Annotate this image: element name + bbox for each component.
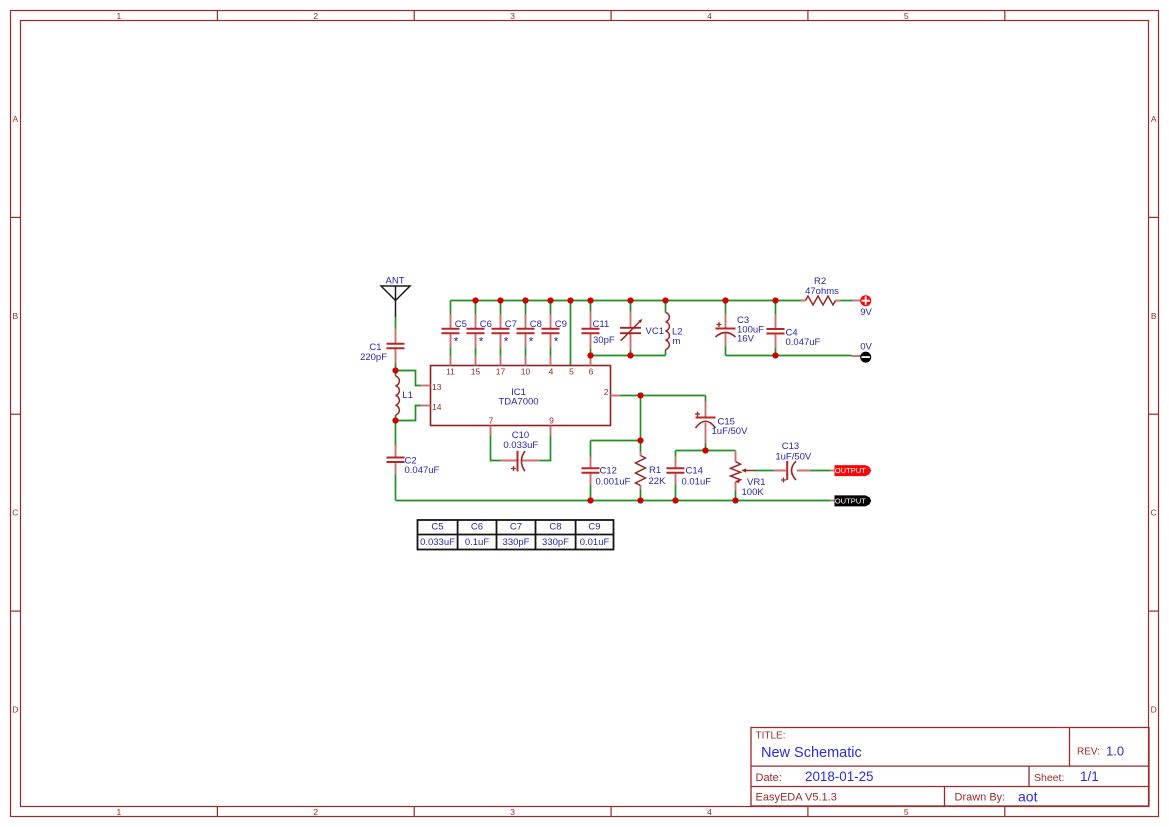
wire wiper to C13 — [755, 470, 775, 472]
svg-text:9V: 9V — [860, 307, 872, 318]
title block row line 1 — [751, 765, 1149, 767]
svg-text:11: 11 — [446, 366, 455, 376]
net flag OUTPUT red — [830, 465, 871, 476]
capacitor C8 — [517, 314, 535, 348]
wire C6 branch to pin 15 — [475, 301, 477, 357]
frame tick bottom 4 — [807, 807, 809, 817]
svg-text:9: 9 — [549, 415, 554, 425]
variable capacitor VC1 — [620, 312, 643, 351]
capacitor C12 — [582, 457, 600, 485]
wire C10 to pin 9 — [540, 436, 551, 461]
junction bus C8 — [522, 297, 528, 303]
power flag 9V — [853, 295, 872, 306]
wire C3 branch — [725, 301, 727, 356]
junction bus C9 — [547, 297, 553, 303]
junction 0V C4 — [772, 352, 778, 358]
svg-text:330pF: 330pF — [503, 537, 530, 548]
polarized capacitor C13 — [774, 461, 811, 483]
svg-text:A: A — [1151, 114, 1157, 124]
wire C14 vertical — [675, 451, 677, 501]
svg-text:4: 4 — [707, 807, 712, 817]
resistor R1 — [636, 452, 646, 490]
svg-text:C14: C14 — [686, 466, 703, 477]
polarized capacitor C15 — [695, 402, 716, 444]
svg-text:OUTPUT: OUTPUT — [835, 466, 867, 475]
svg-text:*: * — [479, 335, 484, 349]
svg-text:2: 2 — [604, 387, 609, 397]
wire C5 branch to pin 11 — [450, 301, 452, 357]
svg-text:C13: C13 — [782, 441, 799, 452]
svg-text:4: 4 — [707, 11, 712, 21]
svg-text:2018-01-25: 2018-01-25 — [805, 769, 874, 784]
svg-text:TITLE:: TITLE: — [756, 730, 786, 741]
svg-text:1: 1 — [117, 11, 122, 21]
capacitor C7 — [492, 314, 510, 348]
value table col line 3 — [535, 520, 537, 550]
svg-text:R1: R1 — [649, 465, 661, 476]
svg-text:0.047uF: 0.047uF — [405, 465, 440, 476]
wire node B to pin 14 — [396, 406, 422, 421]
capacitor C11 — [582, 311, 600, 349]
frame tick top 1 — [216, 11, 218, 21]
title block row line 2 — [751, 786, 1149, 788]
svg-text:*: * — [554, 335, 559, 349]
title block divider DrawnBy — [944, 787, 946, 807]
antenna ANT — [381, 286, 410, 317]
svg-text:C7: C7 — [510, 521, 522, 532]
svg-text:C6: C6 — [471, 521, 483, 532]
svg-text:5: 5 — [569, 366, 574, 376]
wire top supply bus left part — [451, 300, 801, 302]
junction ground R1 — [637, 497, 643, 503]
wire pin 5 branch — [570, 301, 572, 366]
svg-text:aot: aot — [1018, 788, 1038, 804]
junction bus VC1 — [627, 297, 633, 303]
capacitor C5 — [442, 314, 460, 348]
svg-text:D: D — [12, 705, 18, 715]
svg-text:5: 5 — [904, 11, 909, 21]
svg-text:L1: L1 — [402, 390, 413, 401]
wire VC1 branch — [630, 301, 632, 356]
frame tick top 3 — [610, 11, 612, 21]
frame tick left 3 — [11, 610, 21, 612]
svg-text:1uF/50V: 1uF/50V — [712, 426, 749, 437]
junction C15 bottom — [702, 447, 708, 453]
junction bus pin5 — [567, 297, 573, 303]
svg-text:A: A — [12, 114, 18, 124]
svg-text:6: 6 — [589, 366, 594, 376]
junction node B L1 C2 — [392, 417, 398, 423]
frame tick top 5 — [1004, 11, 1006, 21]
svg-text:C: C — [1151, 508, 1157, 518]
wire R1 top stub — [640, 441, 642, 452]
svg-text:C9: C9 — [555, 319, 567, 330]
junction tuning net pin6 — [587, 352, 593, 358]
wire C9 branch to pin 4 — [550, 301, 552, 357]
junction bus C7 — [497, 297, 503, 303]
svg-text:16V: 16V — [737, 334, 755, 345]
junction bus L2 — [662, 297, 668, 303]
IC pin numbers — [432, 366, 609, 425]
wire tuning net to pin 6 — [591, 355, 666, 357]
svg-text:2: 2 — [313, 11, 318, 21]
capacitor C4 — [767, 314, 785, 348]
frame tick bottom 2 — [413, 807, 415, 817]
wire node A to pin 13 — [396, 371, 422, 386]
resistor R2 — [801, 296, 841, 305]
wire L1 bottom lead — [395, 415, 397, 421]
wire L2 branch top — [665, 301, 667, 313]
svg-text:B: B — [1151, 311, 1157, 321]
wire C12 link — [591, 440, 641, 442]
svg-text:*: * — [454, 335, 459, 349]
wire R1 bottom stub — [640, 490, 642, 501]
svg-text:0.1uF: 0.1uF — [465, 537, 489, 548]
IC pin stubs — [421, 356, 621, 436]
svg-text:15: 15 — [471, 366, 481, 376]
svg-text:1: 1 — [117, 807, 122, 817]
svg-text:VC1: VC1 — [646, 326, 664, 337]
wire top supply bus right part — [841, 300, 853, 302]
svg-text:TDA7000: TDA7000 — [498, 397, 538, 408]
wire L1 top lead — [395, 371, 397, 377]
svg-text:C7: C7 — [505, 319, 517, 330]
svg-text:0.01uF: 0.01uF — [682, 477, 712, 488]
frame tick right 1 — [1149, 216, 1159, 218]
svg-text:C9: C9 — [588, 521, 600, 532]
svg-text:*: * — [529, 335, 534, 349]
wire L2 branch bottom — [665, 350, 667, 356]
svg-text:C12: C12 — [600, 466, 617, 477]
junction bus C6 — [472, 297, 478, 303]
svg-text:OUTPUT: OUTPUT — [835, 497, 867, 506]
svg-text:B: B — [12, 311, 18, 321]
wire C4 branch — [775, 301, 777, 356]
svg-text:14: 14 — [432, 402, 442, 412]
svg-text:C8: C8 — [530, 319, 542, 330]
frame tick top 2 — [413, 11, 415, 21]
svg-text:2: 2 — [313, 807, 318, 817]
inductor L2 — [666, 313, 670, 350]
polarized capacitor C10 — [501, 451, 541, 472]
wire C2 branch — [395, 421, 397, 501]
inductor L1 — [396, 376, 400, 415]
frame tick right 3 — [1149, 610, 1159, 612]
svg-text:0.01uF: 0.01uF — [580, 537, 610, 548]
wire C12 vertical — [590, 441, 592, 501]
svg-text:Drawn By:: Drawn By: — [955, 791, 1006, 803]
svg-text:*: * — [504, 335, 509, 349]
svg-text:5: 5 — [904, 807, 909, 817]
capacitor C6 — [467, 314, 485, 348]
svg-text:330pF: 330pF — [542, 537, 569, 548]
svg-text:0V: 0V — [860, 342, 872, 353]
wire audio ground line — [396, 500, 831, 502]
frame tick top 4 — [807, 11, 809, 21]
wire pin 2 horizontal — [618, 395, 706, 397]
svg-text:ANT: ANT — [386, 276, 405, 287]
junction bus C3 — [722, 297, 728, 303]
wire C13 to output — [811, 470, 831, 472]
wire pin 7 to C10 — [491, 436, 502, 461]
svg-text:100K: 100K — [742, 487, 765, 498]
frame tick right 2 — [1149, 413, 1159, 415]
capacitor C2 — [387, 445, 405, 475]
wire C8 branch to pin 10 — [525, 301, 527, 357]
wire C11 branch — [590, 301, 592, 356]
svg-text:47ohms: 47ohms — [805, 286, 839, 297]
svg-text:3: 3 — [510, 11, 515, 21]
svg-text:10: 10 — [521, 366, 531, 376]
power flag 0V — [852, 352, 872, 363]
wire C7 branch to pin 17 — [500, 301, 502, 357]
frame tick bottom 5 — [1004, 807, 1006, 817]
svg-text:1uF/50V: 1uF/50V — [775, 451, 812, 462]
svg-text:7: 7 — [489, 415, 494, 425]
svg-text:220pF: 220pF — [360, 352, 387, 363]
svg-text:Date:: Date: — [756, 772, 782, 784]
svg-text:0.047uF: 0.047uF — [786, 337, 821, 348]
svg-text:Sheet:: Sheet: — [1034, 772, 1064, 784]
frame tick left 2 — [11, 413, 21, 415]
net flag OUTPUT black — [830, 495, 871, 506]
junction C12 R1 — [637, 437, 643, 443]
frame tick bottom 1 — [216, 807, 218, 817]
junction ground VR1 — [732, 497, 738, 503]
wire C15 vertical — [705, 396, 707, 451]
svg-text:17: 17 — [496, 366, 506, 376]
svg-text:C11: C11 — [593, 319, 610, 330]
svg-text:30pF: 30pF — [593, 335, 615, 346]
svg-text:13: 13 — [432, 382, 442, 392]
junction tuning net VC1 — [627, 352, 633, 358]
svg-text:1/1: 1/1 — [1080, 769, 1099, 784]
svg-text:D: D — [1151, 705, 1157, 715]
svg-text:REV:: REV: — [1077, 747, 1100, 758]
svg-text:22K: 22K — [649, 476, 667, 487]
value table outline — [418, 520, 614, 550]
potentiometer VR1 — [731, 451, 756, 491]
svg-text:3: 3 — [510, 807, 515, 817]
junction ground C14 — [672, 497, 678, 503]
value table col line 1 — [457, 520, 459, 550]
value table row line — [418, 534, 614, 536]
frame tick left 1 — [11, 216, 21, 218]
svg-text:0.033uF: 0.033uF — [503, 440, 538, 451]
svg-text:0.001uF: 0.001uF — [596, 477, 631, 488]
IC U1 TDA7000 box — [431, 366, 611, 426]
svg-text:C: C — [12, 508, 18, 518]
svg-text:EasyEDA V5.1.3: EasyEDA V5.1.3 — [756, 791, 837, 803]
wire C14 VR1 link — [676, 450, 736, 452]
capacitor C1 — [387, 329, 405, 364]
wire ground 0V line — [726, 355, 852, 357]
svg-text:New Schematic: New Schematic — [761, 745, 862, 761]
value table col line 2 — [496, 520, 498, 550]
wire VR1 bottom stub — [735, 490, 737, 501]
svg-text:C5: C5 — [455, 319, 467, 330]
wire pin 2 down branch — [640, 396, 642, 441]
junction bus C11 — [587, 297, 593, 303]
junction ground C12 — [587, 497, 593, 503]
polarized capacitor C3 — [716, 314, 736, 348]
svg-text:C5: C5 — [431, 521, 443, 532]
junction bus C4 — [772, 297, 778, 303]
svg-text:4: 4 — [549, 366, 554, 376]
value table col line 4 — [575, 520, 577, 550]
title block divider Sheet — [1028, 766, 1030, 786]
wire antenna to C1 — [395, 316, 397, 371]
frame tick bottom 3 — [610, 807, 612, 817]
junction pin2 branch — [637, 392, 643, 398]
capacitor C9 — [542, 314, 560, 348]
title block divider REV — [1069, 728, 1071, 767]
svg-text:0.033uF: 0.033uF — [420, 537, 455, 548]
junction node A antenna L1 — [392, 367, 398, 373]
capacitor C14 — [667, 457, 685, 485]
title block outline — [751, 728, 1149, 807]
svg-text:C6: C6 — [480, 319, 492, 330]
svg-text:1.0: 1.0 — [1106, 744, 1124, 759]
svg-text:m: m — [673, 336, 681, 347]
svg-text:C8: C8 — [549, 521, 561, 532]
